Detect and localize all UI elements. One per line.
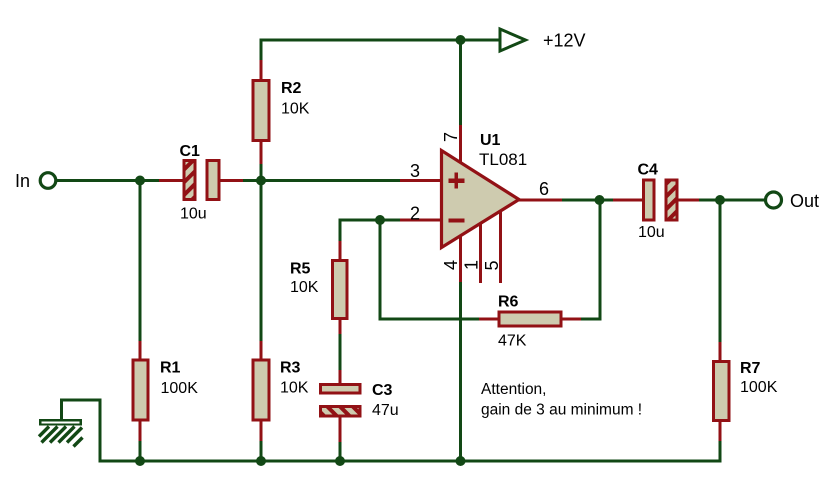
power symbol: +12V arrow <box>500 29 586 51</box>
wire: C1 right to junction <box>242 179 261 182</box>
svg-text:R7: R7 <box>740 360 761 377</box>
svg-text:R3: R3 <box>280 360 301 377</box>
svg-text:Attention,: Attention, <box>481 381 547 398</box>
wire: output drop to R7 <box>719 200 722 343</box>
resistor R6 <box>479 294 581 350</box>
wire: R7 bottom to rail <box>719 440 722 463</box>
wire: C3 bottom to rail <box>339 441 342 461</box>
wire: In drop to R1 <box>139 181 142 343</box>
svg-text:C1: C1 <box>180 143 201 160</box>
junction node: pin2/feedback <box>375 215 385 225</box>
junction node: C4/R7/Out <box>715 195 725 205</box>
pin 2 stub <box>400 219 441 222</box>
junction node: C1/R2/R3/pin3 <box>256 176 266 186</box>
junction node: In/C1/R1 <box>135 176 145 186</box>
svg-text:R1: R1 <box>160 360 181 377</box>
svg-text:10K: 10K <box>290 279 319 296</box>
svg-text:gain de 3 au minimum !: gain de 3 au minimum ! <box>481 401 642 418</box>
triangle body <box>442 151 520 248</box>
junction node: rail R1 <box>135 456 145 466</box>
junction node: rail R3 <box>256 456 266 466</box>
svg-text:+12V: +12V <box>543 31 586 51</box>
svg-text:7: 7 <box>441 132 461 142</box>
wire: junction to pin3 <box>261 179 401 182</box>
junction node: +12V/pin7 <box>456 35 466 45</box>
wire: R5 bottom to C3 <box>339 333 342 371</box>
wire: R1 bottom to rail <box>139 440 142 461</box>
wire: R2 bottom to junction <box>260 163 263 181</box>
capacitor C3 <box>321 370 399 442</box>
svg-text:In: In <box>15 171 30 191</box>
minus symbol <box>449 218 465 222</box>
svg-text:10u: 10u <box>180 206 207 223</box>
svg-text:100K: 100K <box>740 379 778 396</box>
svg-text:TL081: TL081 <box>479 150 527 169</box>
note text <box>481 381 642 419</box>
wire: R3 bottom to rail <box>260 440 263 461</box>
svg-text:5: 5 <box>482 260 502 270</box>
junction node: output/feedback <box>595 195 605 205</box>
resistor R5 <box>290 241 347 334</box>
pin 5 stub <box>499 211 502 283</box>
pin 6 stub <box>518 199 562 202</box>
svg-text:C3: C3 <box>372 382 393 399</box>
resistor R3 <box>253 341 309 441</box>
wire: ground feed drop <box>60 399 63 421</box>
pin 7 stub <box>459 125 462 165</box>
wire: feedback vertical from pin2 dot <box>379 220 382 319</box>
resistor R2 <box>253 60 310 164</box>
resistor R1 <box>133 341 198 441</box>
svg-text:1: 1 <box>462 260 482 270</box>
svg-text:6: 6 <box>539 179 549 199</box>
wire: pin2 to corner <box>340 219 401 222</box>
wire: top +12V rail <box>56 39 765 463</box>
svg-text:10u: 10u <box>638 224 665 241</box>
svg-text:10K: 10K <box>281 100 310 117</box>
svg-text:47K: 47K <box>498 333 527 350</box>
svg-text:2: 2 <box>410 204 420 224</box>
wire: corner up to output <box>599 200 602 321</box>
wire: bottom ground rail <box>100 460 722 463</box>
wire: rail up to ground feed <box>99 400 102 463</box>
pin 4 stub <box>459 234 462 282</box>
wire: In to C1 <box>56 179 160 182</box>
svg-text:R5: R5 <box>290 261 311 278</box>
pin 3 stub <box>400 179 441 182</box>
wire: C4 right to Out <box>698 199 765 202</box>
svg-text:Out: Out <box>790 191 819 211</box>
wire: feedback horizontal to R6 <box>379 318 481 321</box>
svg-text:3: 3 <box>410 161 420 181</box>
terminal: In <box>40 173 56 189</box>
svg-text:R2: R2 <box>281 80 302 97</box>
resistor R7 <box>713 342 777 441</box>
svg-text:C4: C4 <box>638 162 659 179</box>
wire: pin4 down to rail <box>459 281 462 461</box>
capacitor C4 <box>613 162 699 242</box>
wire: ground feed horizontal <box>62 399 102 402</box>
svg-text:R6: R6 <box>498 294 519 311</box>
terminal: Out <box>766 192 782 208</box>
capacitor C1 <box>159 143 243 223</box>
svg-text:10K: 10K <box>280 380 309 397</box>
svg-text:100K: 100K <box>161 380 199 397</box>
wire: junction down to R3 <box>260 181 263 343</box>
ground <box>39 420 83 446</box>
wire: R2 top stub green <box>260 39 263 62</box>
wire: output pin6 green <box>561 199 615 202</box>
op-amp U1 <box>400 125 562 283</box>
junction node: rail pin4 <box>456 456 466 466</box>
svg-text:47u: 47u <box>372 402 399 419</box>
plus symbol <box>449 178 465 182</box>
svg-text:U1: U1 <box>480 132 501 149</box>
wire: R6 right to corner <box>580 318 600 321</box>
wire: corner down to R5 <box>339 219 342 243</box>
wire: pin7 vertical green <box>459 40 462 126</box>
junction node: rail C3 <box>335 456 345 466</box>
svg-text:4: 4 <box>441 260 461 270</box>
pin 1 stub <box>479 223 482 283</box>
